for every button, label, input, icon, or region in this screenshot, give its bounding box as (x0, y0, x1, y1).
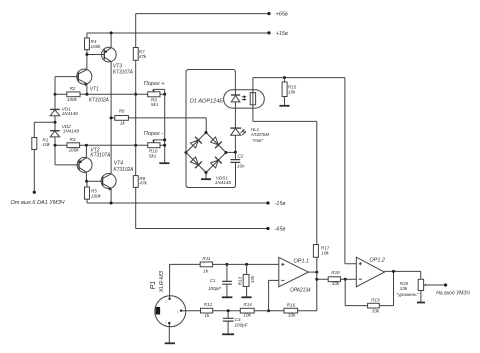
node bridge right (225, 151, 228, 154)
svg-text:100k: 100k (67, 97, 78, 102)
node R15 top (283, 76, 286, 79)
node VT1 emitter (85, 93, 88, 96)
optocoupler D1 body (190, 90, 264, 108)
svg-text:10k: 10k (243, 313, 251, 318)
node HL1 cathode (234, 151, 237, 154)
resistor R7 (133, 48, 147, 95)
svg-text:OP1.2: OP1.2 (369, 257, 385, 263)
node bridge bottom (205, 171, 208, 174)
wire opamp1 minus leg (269, 280, 279, 310)
resistor R18 (317, 270, 357, 286)
wire -15v rail (87, 199, 268, 203)
diode VD1 (50, 106, 78, 130)
node R10 wiper (163, 138, 166, 141)
svg-text:C3: C3 (235, 317, 241, 322)
svg-text:R13: R13 (238, 276, 243, 285)
svg-text:R12: R12 (204, 302, 213, 307)
wire XLR pin1 ground leg (168, 323, 170, 343)
svg-text:R3: R3 (70, 137, 76, 142)
wire +15v rail (87, 32, 269, 34)
svg-text:KT3102A: KT3102A (89, 97, 110, 103)
svg-text:47k: 47k (139, 54, 147, 59)
node divider top (134, 93, 137, 96)
node opamp2 minus (344, 278, 347, 281)
resistor R3 (67, 137, 80, 153)
op-amp OP1.2 (356, 257, 385, 287)
wire R20 bottom (420, 291, 422, 303)
resistor R5 (85, 181, 102, 199)
svg-text:10k: 10k (288, 89, 296, 94)
wire bridge right link (226, 151, 235, 153)
svg-text:1N4148: 1N4148 (62, 111, 79, 116)
svg-text:KT3107A: KT3107A (90, 153, 111, 159)
svg-text:1N4148: 1N4148 (215, 180, 232, 185)
svg-text:C1: C1 (210, 278, 216, 283)
svg-text:1k: 1k (120, 121, 126, 126)
node VD2 bottom (54, 144, 57, 147)
svg-text:KT3102A: KT3102A (113, 167, 134, 173)
diode VD2 (50, 124, 79, 145)
svg-text:5k1: 5k1 (151, 102, 159, 107)
node R9 out (163, 93, 166, 96)
potentiometer R10 (144, 131, 165, 159)
wire bridge left loop bottom (186, 153, 236, 188)
ground pot column (159, 162, 169, 164)
wire opamp2 plus feed (345, 78, 356, 264)
svg-text:1: 1 (177, 309, 179, 313)
svg-text:100pF: 100pF (235, 323, 249, 328)
svg-text:100k: 100k (69, 148, 80, 153)
svg-text:АЛ307БМ: АЛ307БМ (250, 132, 269, 137)
node bridge left (185, 151, 188, 154)
svg-text:XLR-M3: XLR-M3 (159, 271, 165, 294)
wire bridge left loop top (186, 70, 235, 153)
svg-text:+65в: +65в (276, 12, 288, 18)
capacitor C3 (223, 311, 249, 335)
resistor R6 (111, 109, 206, 126)
wire minus row (213, 310, 317, 312)
svg-text:-65в: -65в (275, 227, 286, 233)
svg-text:R6: R6 (119, 109, 125, 114)
capacitor C2 (230, 152, 245, 168)
resistor R2 (67, 86, 80, 102)
node inverting input (267, 309, 270, 312)
node +65v terminal (267, 12, 288, 18)
node R13 top (245, 263, 248, 266)
resistor R8 (133, 145, 147, 187)
svg-text:C2: C2 (238, 153, 244, 158)
wire porog+ row (55, 93, 165, 95)
wire photoresistor top row (253, 77, 345, 79)
wire -65v rail (136, 187, 268, 228)
ground C1 (222, 296, 233, 298)
wire XLR pin2 leg (170, 264, 201, 298)
node R4 bottom (85, 53, 88, 56)
wire VT3-VT4 collector column (110, 62, 112, 174)
led HL1 (230, 127, 269, 153)
svg-text:10k: 10k (250, 275, 255, 283)
ground bridge (201, 173, 211, 180)
svg-text:На вход УМЗЧ: На вход УМЗЧ (436, 291, 470, 297)
svg-text:33k: 33k (332, 281, 340, 286)
resistor R4 (85, 33, 102, 55)
wire VT1 base column (54, 77, 56, 110)
wire XLR pin3 row (181, 310, 200, 312)
resistor R17 (313, 245, 329, 311)
svg-text:33k: 33k (400, 286, 408, 291)
node opamp2 output (392, 270, 395, 273)
node VT3 emitter rail (110, 31, 113, 34)
node -65v terminal (266, 227, 285, 233)
connector P1 XLR (150, 271, 186, 327)
wire pot column (164, 94, 166, 163)
svg-text:R11: R11 (202, 256, 211, 261)
node R18 tap (315, 278, 318, 281)
wire porog- row (55, 144, 165, 146)
svg-text:100k: 100k (91, 44, 102, 49)
svg-text:Порог -: Порог - (144, 131, 163, 137)
resistor R11 (200, 256, 212, 273)
capacitor C1 (208, 264, 232, 297)
resistor R19 (368, 298, 380, 314)
ground XLR (165, 342, 175, 344)
svg-text:1k: 1k (204, 313, 210, 318)
resistor R16 (284, 303, 298, 318)
ground R20 (417, 302, 425, 304)
svg-text:Порог +: Порог + (144, 81, 165, 87)
node VT2 emitter (85, 144, 88, 147)
svg-text:33k: 33k (372, 309, 380, 314)
node R6 left (110, 116, 113, 119)
node -15v terminal (266, 201, 285, 207)
node diode mid (54, 121, 57, 124)
node VT4 emitter rail (110, 202, 113, 205)
node bridge top (205, 131, 208, 134)
node VT2 collector (85, 180, 88, 183)
node C3 top (227, 309, 230, 312)
wire R7-R8 column (135, 94, 137, 145)
transistor VT2 (77, 145, 111, 181)
led HL1 light arrows (241, 129, 247, 135)
wire opamp1 output (308, 271, 316, 273)
wire plus row (213, 263, 279, 265)
svg-text:R16: R16 (287, 303, 296, 308)
svg-text:3: 3 (165, 319, 167, 323)
transistor VT1 (55, 55, 109, 104)
svg-text:R14: R14 (243, 302, 252, 307)
svg-text:10k: 10k (288, 313, 296, 318)
svg-text:"Узм": "Узм" (252, 138, 264, 143)
potentiometer R20 (396, 279, 445, 297)
svg-text:P1: P1 (150, 281, 157, 290)
resistor R12 (201, 302, 213, 318)
node divider bottom (134, 144, 137, 147)
svg-text:R2: R2 (70, 86, 76, 91)
potentiometer R9 (144, 81, 165, 107)
wire bridge feed (205, 118, 207, 133)
wire R19 feedback (345, 271, 393, 305)
svg-text:"уровень": "уровень" (396, 292, 419, 297)
node R10 out (163, 144, 166, 147)
svg-text:10k: 10k (42, 142, 50, 147)
svg-text:OP1.1: OP1.1 (294, 259, 310, 265)
transistor VT4 (87, 161, 134, 204)
resistor R1 (32, 122, 55, 192)
svg-text:100pF: 100pF (208, 286, 222, 291)
svg-text:5k1: 5k1 (149, 153, 157, 158)
svg-text:47k: 47k (139, 181, 147, 186)
transistor VT3 (87, 33, 134, 75)
ground R13 (241, 296, 251, 298)
node +15v terminal (267, 31, 288, 37)
wire VT2 base leg (55, 145, 79, 165)
svg-text:R19: R19 (371, 298, 380, 303)
svg-text:KT3107A: KT3107A (113, 69, 134, 75)
svg-text:1k: 1k (203, 268, 209, 273)
svg-text:10n: 10n (237, 163, 245, 168)
svg-text:OPA2134: OPA2134 (290, 288, 311, 294)
op-amp OP1.1 (279, 257, 311, 293)
ground R15 (279, 105, 289, 107)
optocoupler light arrows (242, 95, 247, 101)
svg-text:D1 AOP124Б: D1 AOP124Б (190, 98, 223, 104)
optocoupler photoresistor (250, 78, 255, 122)
resistor R14 (240, 302, 254, 318)
svg-text:R18: R18 (331, 270, 340, 275)
svg-text:10k: 10k (321, 251, 329, 256)
node opamp1 output (315, 271, 318, 274)
wire +65v rail (136, 14, 269, 48)
node VT1 base (54, 93, 57, 96)
resistor R15 (282, 78, 297, 106)
svg-text:1N4148: 1N4148 (63, 128, 80, 133)
svg-text:-15в: -15в (275, 201, 286, 207)
svg-text:2: 2 (164, 299, 167, 303)
svg-text:VT4: VT4 (114, 161, 123, 167)
optocoupler LED (231, 95, 240, 128)
ground C3 (222, 333, 234, 335)
resistor R13 (238, 264, 255, 297)
node input terminal (11, 191, 65, 207)
bridge VDS1 (186, 133, 231, 186)
svg-text:+15в: +15в (276, 31, 288, 37)
node C1 top (225, 263, 228, 266)
svg-text:100k: 100k (91, 193, 102, 198)
svg-text:VT1: VT1 (90, 86, 99, 92)
wire opamp2 output (384, 271, 420, 279)
wire photoresistor bottom row (253, 121, 317, 244)
node output terminal (436, 283, 470, 296)
svg-text:От вых.6 DA1 УМЗЧ: От вых.6 DA1 УМЗЧ (11, 200, 65, 206)
